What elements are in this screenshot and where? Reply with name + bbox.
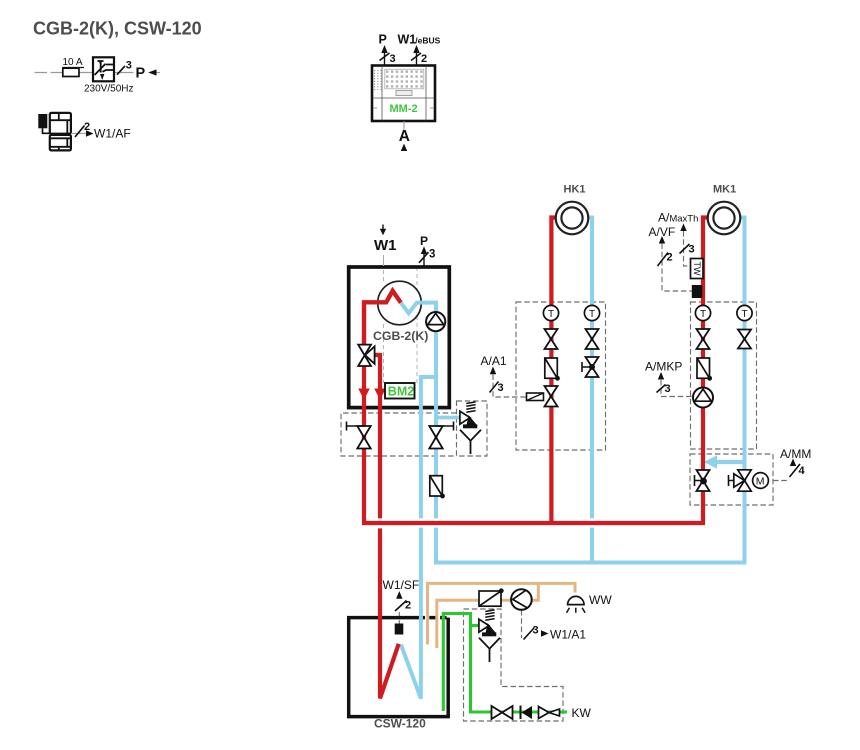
svg-text:WW: WW	[589, 593, 612, 607]
svg-text:T: T	[742, 309, 748, 320]
svg-text:T: T	[548, 309, 554, 320]
svg-text:P: P	[420, 234, 428, 248]
svg-text:TW: TW	[692, 262, 702, 276]
svg-text:HK1: HK1	[564, 184, 586, 196]
svg-text:A/MM: A/MM	[780, 447, 811, 461]
svg-text:T: T	[700, 309, 706, 320]
svg-text:3: 3	[665, 383, 671, 395]
svg-text:T: T	[589, 309, 595, 320]
svg-text:M: M	[756, 476, 765, 488]
svg-text:A: A	[399, 128, 410, 145]
svg-text:W1: W1	[374, 237, 397, 254]
svg-text:P: P	[136, 66, 146, 82]
svg-text:KW: KW	[572, 706, 592, 720]
svg-text:W1/SF: W1/SF	[383, 578, 420, 592]
svg-text:230V/50Hz: 230V/50Hz	[84, 84, 133, 95]
svg-text:4: 4	[799, 465, 806, 477]
svg-text:W1/A1: W1/A1	[550, 628, 586, 642]
svg-text:BM2: BM2	[388, 385, 414, 399]
svg-text:W1/AF: W1/AF	[94, 127, 131, 141]
svg-text:CGB-2(K), CSW-120: CGB-2(K), CSW-120	[33, 19, 202, 39]
svg-text:MM-2: MM-2	[390, 103, 418, 115]
svg-text:2: 2	[421, 53, 427, 65]
svg-text:3: 3	[533, 625, 539, 637]
svg-text:A/MaxTh: A/MaxTh	[658, 211, 698, 225]
svg-text:3: 3	[498, 382, 504, 394]
svg-text:CGB-2(K): CGB-2(K)	[373, 329, 428, 343]
svg-text:3: 3	[689, 244, 695, 256]
svg-text:10 A: 10 A	[63, 57, 83, 68]
svg-text:/eBUS: /eBUS	[415, 36, 440, 46]
svg-text:CSW-120: CSW-120	[374, 717, 426, 731]
svg-text:3: 3	[429, 249, 435, 261]
svg-text:2: 2	[667, 252, 673, 264]
svg-text:2: 2	[405, 600, 411, 612]
svg-text:3: 3	[390, 53, 396, 65]
svg-text:MK1: MK1	[713, 184, 736, 196]
svg-text:P: P	[379, 33, 387, 47]
svg-text:3: 3	[126, 60, 132, 72]
svg-text:A/A1: A/A1	[481, 354, 507, 368]
svg-text:W1: W1	[398, 33, 417, 47]
svg-text:A/MKP: A/MKP	[645, 360, 682, 374]
